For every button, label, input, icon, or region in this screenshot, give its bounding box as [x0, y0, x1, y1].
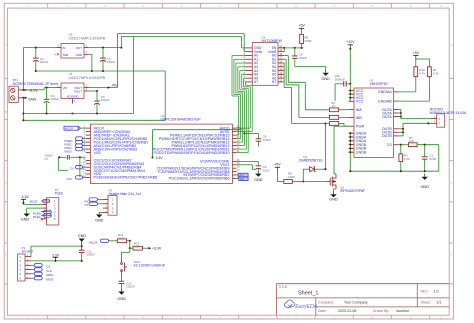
svg-text:33nF: 33nF	[429, 157, 436, 161]
resistor R6 100K	[284, 180, 293, 184]
capacitor C10 1000uF	[340, 83, 344, 85]
wire U4 A4 to U2	[240, 70, 246, 72]
gnd flag at P1	[24, 214, 30, 217]
svg-text:GND: GND	[254, 178, 263, 182]
svg-text:10uF: 10uF	[263, 169, 270, 173]
svg-text:LM1117MPX-5.0/NOPB: LM1117MPX-5.0/NOPB	[69, 76, 106, 80]
connector MOTOR1 WJ500V	[437, 114, 445, 127]
svg-text:Header-Male 2.54_1x4: Header-Male 2.54_1x4	[109, 192, 142, 196]
svg-text:KZ-11S0DP-G4SW-W: KZ-11S0DP-G4SW-W	[134, 264, 165, 268]
svg-text:MCLR: MCLR	[30, 200, 38, 204]
svg-text:100uF: 100uF	[51, 97, 60, 101]
svg-text:1K: 1K	[135, 244, 139, 248]
wire to SW1	[129, 248, 131, 252]
svg-text:LM1117AMP-3.3/NOPB: LM1117AMP-3.3/NOPB	[69, 36, 106, 40]
microcontroller U2 DSPIC33FJ64MC802	[90, 124, 232, 183]
wire OUTA to motor pin1	[401, 118, 431, 120]
level shifter U4 NVT2008PW	[252, 43, 278, 86]
svg-text:Date:: Date:	[318, 309, 326, 313]
wire C8 feed	[244, 133, 258, 135]
svg-text:B: B	[5, 110, 7, 114]
wire ENDIAB to R1	[399, 100, 430, 102]
wire rail A to U4 VrefA	[243, 34, 245, 52]
svg-text:PGEC: PGEC	[33, 215, 41, 219]
svg-text:GNDB: GNDB	[356, 151, 367, 155]
wire MCLR to pin1	[80, 127, 85, 129]
wire R11 to junction	[127, 240, 130, 242]
svg-text:GND: GND	[78, 234, 87, 238]
switch SW1	[121, 260, 127, 277]
connector P1 Pickit	[47, 198, 59, 225]
top rail A +5V	[117, 33, 244, 35]
svg-text:ENDIAB: ENDIAB	[378, 99, 392, 103]
resistor R2 1.5K	[400, 145, 402, 154]
svg-text:GND: GND	[321, 77, 330, 81]
svg-text:GND: GND	[21, 218, 30, 222]
wire BT1 plus to U5	[23, 89, 44, 91]
U3 left pins	[349, 90, 354, 92]
svg-text:ENDIAA: ENDIAA	[378, 90, 392, 94]
svg-text:+12V: +12V	[346, 40, 355, 44]
wire U4 A1 to U2	[234, 58, 246, 60]
wire U6 gnd pin	[89, 53, 92, 55]
svg-text:100nF: 100nF	[86, 253, 95, 257]
svg-text:100nF: 100nF	[263, 138, 272, 142]
wire Q1 source to gnd	[334, 188, 337, 190]
svg-text:12: 12	[439, 4, 443, 8]
wire gnd branch down	[133, 37, 135, 114]
svg-text:IRF9540STRPBF: IRF9540STRPBF	[340, 189, 365, 193]
wire U6 input	[23, 47, 61, 49]
wire B2 to R3c	[283, 62, 286, 64]
wire U4 A2 to U2	[236, 62, 246, 64]
wire U3 gnd pins chain	[349, 133, 351, 171]
svg-text:GND: GND	[28, 97, 37, 101]
svg-text:CS: CS	[387, 143, 393, 147]
svg-text:GND: GND	[76, 53, 82, 57]
wire U4 VrefB	[283, 51, 286, 53]
zener diode D1	[302, 169, 304, 181]
svg-text:GND: GND	[95, 219, 104, 223]
resistor R11 330	[117, 239, 126, 243]
wire 3.3V to P1 pin2	[23, 204, 41, 206]
net port MCLR at U2	[64, 126, 78, 130]
svg-text:2020-01-08: 2020-01-08	[338, 309, 356, 313]
gnd rail of U6	[36, 70, 165, 72]
wire B1 to R3b	[284, 58, 287, 60]
wire U6 output	[89, 47, 122, 49]
resistor R3c	[329, 122, 338, 126]
wire OUTB chain	[402, 123, 404, 136]
wire AVDD 3.3V crossing inside U2	[237, 127, 242, 129]
svg-text:PWR: PWR	[356, 125, 365, 129]
gnd rail G2	[23, 119, 165, 121]
wire C10 left lead down	[335, 83, 340, 85]
svg-text:GND: GND	[117, 297, 126, 301]
svg-text:C7: C7	[44, 157, 48, 161]
svg-text:SCREW TERMINAL 2P 5mm: SCREW TERMINAL 2P 5mm	[13, 82, 59, 86]
svg-text:3.3V: 3.3V	[22, 195, 30, 199]
svg-text:MISO: MISO	[46, 273, 54, 277]
wire PWR to Q1	[334, 125, 349, 127]
net port IO1 at U2 right	[237, 174, 239, 176]
svg-text:IO2: IO2	[240, 178, 245, 181]
wire left of C7	[57, 157, 59, 170]
U5 pin stubs	[57, 87, 62, 89]
wire VSS1 tee	[237, 164, 253, 166]
svg-text:4.7k: 4.7k	[419, 71, 425, 75]
wire CS	[399, 144, 409, 146]
svg-text:1.0: 1.0	[434, 290, 439, 294]
svg-text:10: 10	[371, 315, 375, 319]
wire 12V rail to VCC	[349, 50, 351, 101]
wire P1 pin1	[47, 200, 50, 202]
svg-text:Your Company: Your Company	[344, 300, 368, 304]
svg-text:Company:: Company:	[318, 300, 334, 304]
svg-text:WJ500V-5.08-2P-14-00A: WJ500V-5.08-2P-14-00A	[430, 111, 467, 115]
svg-text:330: 330	[119, 236, 124, 240]
gnd flag below Q1	[333, 191, 335, 194]
svg-text:1000uF: 1000uF	[334, 77, 345, 81]
svg-text:100uF: 100uF	[40, 60, 49, 64]
svg-text:PGED3/ASDA1/RP5/CN27/PMD7/RB5: PGED3/ASDA1/RP5/CN27/PMD7/RB5	[94, 176, 158, 180]
svg-text:1/1: 1/1	[437, 300, 442, 304]
resistor R4 200R	[300, 34, 304, 43]
U2 left pins	[86, 127, 91, 129]
svg-text:MOSI: MOSI	[46, 278, 53, 282]
wire gate rail	[303, 181, 326, 183]
capacitor C2	[35, 48, 37, 59]
gnd rail G1	[23, 113, 133, 115]
svg-text:A: A	[5, 43, 7, 47]
svg-text:100K: 100K	[288, 175, 295, 179]
wire U4 A3 to U2	[238, 66, 246, 68]
net port IO2 at U2 right	[237, 177, 239, 179]
wire VCAP to C9	[237, 160, 259, 162]
wire ENDIAA to R10	[399, 91, 416, 93]
wire U4 A5 to U2	[242, 73, 246, 75]
net label CS at P2	[34, 264, 42, 267]
svg-text:12: 12	[439, 315, 443, 319]
svg-text:1K: 1K	[332, 104, 336, 108]
gnd flag below C12	[121, 288, 123, 291]
svg-text:INA: INA	[356, 108, 363, 112]
gnd flag at P3	[96, 215, 102, 218]
svg-text:3.3V: 3.3V	[52, 253, 60, 257]
svg-text:A: A	[450, 43, 452, 47]
svg-text:CS: CS	[70, 167, 74, 171]
svg-text:ADJ/GND: ADJ/GND	[67, 94, 79, 98]
svg-text:MOSI: MOSI	[65, 149, 72, 153]
svg-text:+5V: +5V	[111, 84, 118, 88]
svg-text:A7: A7	[254, 80, 258, 84]
svg-text:VNH2SP30: VNH2SP30	[370, 82, 388, 86]
svg-text:+8.2V: +8.2V	[28, 88, 38, 92]
svg-text:VSS: VSS	[94, 151, 102, 155]
svg-text:+3.3V: +3.3V	[152, 247, 162, 251]
net label CLK at P2	[34, 268, 42, 271]
svg-text:100nF: 100nF	[299, 56, 308, 60]
wire R3b to INB	[339, 116, 349, 118]
wire P2 pin1 to gnd rail	[30, 246, 32, 257]
wire OUTA chain	[400, 110, 402, 119]
capacitor C3	[46, 88, 48, 100]
svg-text:IN: IN	[63, 46, 66, 50]
svg-text:Drawn By:: Drawn By:	[373, 309, 389, 313]
svg-text:MCLR: MCLR	[65, 126, 73, 130]
svg-text:VIN: VIN	[63, 86, 68, 90]
net flag +8.2V	[22, 89, 24, 91]
connector P2 encoder	[18, 254, 25, 281]
wire R7 right	[417, 144, 439, 146]
capacitor C9 10uF	[256, 165, 262, 167]
svg-text:200R: 200R	[304, 39, 312, 43]
top rail B 3.3V	[121, 36, 241, 38]
U6 pin stubs	[57, 47, 62, 49]
wire down to CLK	[79, 157, 81, 177]
resistor R12 1K	[133, 246, 142, 250]
svg-text:OUTB: OUTB	[382, 134, 393, 138]
net label MOSI at P2	[34, 277, 42, 280]
resistor R10 4.7k	[414, 67, 418, 77]
capacitor C4	[102, 48, 104, 59]
connector P3 header male 1x4	[108, 195, 117, 215]
svg-text:10K: 10K	[409, 139, 414, 143]
resistor R3a	[329, 108, 338, 112]
net label MISO at P2	[34, 272, 42, 275]
svg-text:1SMB5929BT3G: 1SMB5929BT3G	[299, 159, 324, 163]
wire gnd down at right	[164, 71, 166, 120]
U2 right pins	[233, 127, 237, 129]
wire U5 vout2	[89, 90, 98, 92]
svg-text:Sheet:: Sheet:	[421, 300, 431, 304]
BT1 pin stubs	[18, 89, 23, 91]
svg-text:10: 10	[371, 4, 375, 8]
svg-text:GND: GND	[329, 198, 338, 202]
U3 right pins	[394, 91, 399, 93]
svg-text:NVT2008PW: NVT2008PW	[262, 39, 283, 43]
svg-text:PGD2/TDI/PWM1H3/RP10/CN16/PMD2: PGD2/TDI/PWM1H3/RP10/CN16/PMD2/RB10	[153, 151, 229, 155]
gnd flag bottom right	[424, 174, 426, 177]
wire junction down to R12 row	[129, 241, 131, 248]
EasyEDA logo	[285, 300, 295, 307]
wire P3 pin4 gnd	[99, 211, 103, 213]
battery connector BT1 screw terminal	[9, 86, 18, 102]
wire U4 EN	[284, 47, 304, 49]
wire R6 to +5V	[277, 181, 283, 183]
resistor R7 10K	[408, 143, 417, 147]
wire R3a to INA	[339, 109, 349, 111]
gnd rail bottom right	[350, 170, 439, 172]
svg-text:100uF: 100uF	[107, 60, 116, 64]
svg-text:B7: B7	[272, 80, 276, 84]
wire OUTB to motor pin2	[403, 122, 431, 124]
gnd flag below C9	[257, 170, 259, 173]
svg-text:11: 11	[409, 4, 412, 8]
title block	[277, 284, 450, 316]
svg-text:100nF: 100nF	[126, 285, 135, 289]
svg-text:Sheet_1: Sheet_1	[298, 290, 319, 296]
capacitor C11 100nF	[81, 245, 83, 247]
wire B0 to R3a	[284, 55, 289, 57]
gnd flag right of C6	[325, 70, 327, 73]
capacitor C8	[258, 134, 260, 139]
transistor Q1 PMOS	[327, 174, 337, 189]
net flag +5V at U5	[108, 86, 111, 88]
capacitor C6	[294, 48, 296, 56]
wire zener column	[324, 124, 326, 170]
capacitor C1 33nF	[424, 145, 426, 157]
svg-text:CLK: CLK	[67, 177, 73, 181]
svg-text:1.5K: 1.5K	[404, 157, 410, 161]
voltage regulator U5 LM1117MPX-5.0	[61, 83, 84, 99]
svg-text:100uF: 100uF	[101, 98, 110, 102]
svg-text:+5V: +5V	[298, 24, 305, 28]
wire +5V out	[89, 87, 118, 89]
svg-text:4.7k: 4.7k	[433, 71, 439, 75]
svg-text:Pickit: Pickit	[55, 192, 63, 196]
capacitor C12 100nF	[121, 276, 123, 281]
wire R10 R1 tops to +5V	[415, 59, 417, 67]
svg-text:VCC: VCC	[356, 100, 364, 104]
svg-text:TX: TX	[85, 203, 89, 207]
svg-text:REV:: REV:	[421, 290, 429, 294]
svg-text:OUT: OUT	[76, 46, 82, 50]
wire U5 input	[46, 87, 48, 89]
wire U4 A6 to AVDD	[244, 77, 246, 79]
wire C6 to gnd	[295, 65, 326, 67]
capacitor C7 inline	[67, 155, 69, 160]
wire U4 A7 to AVSS	[245, 82, 247, 85]
svg-text:PGC3/ASCL1/RP6/CN24/PMD6/RB6: PGC3/ASCL1/RP6/CN24/PMD6/RB6	[169, 177, 230, 181]
svg-text:INB: INB	[356, 116, 363, 120]
wire U5 adj to gnd rail	[71, 112, 73, 114]
nc mark P1 pin6	[41, 218, 43, 220]
resistor R3b	[329, 116, 338, 120]
svg-text:+5V: +5V	[274, 163, 281, 167]
net flag GND at BT1	[22, 97, 24, 99]
voltage regulator U6 LM1117AMP-3.3	[61, 44, 84, 59]
svg-text:VOUT: VOUT	[74, 89, 82, 93]
svg-text:MCLR: MCLR	[89, 241, 97, 245]
wire R12 to 3.3V flag	[142, 247, 148, 249]
svg-text:3.3V: 3.3V	[156, 156, 164, 160]
svg-text:TAB: TAB	[63, 53, 68, 57]
svg-text:+5V: +5V	[413, 51, 420, 55]
capacitor C5	[96, 91, 98, 101]
svg-text:EasyEDA: EasyEDA	[295, 304, 318, 310]
motor driver U3 VNH2SP30	[354, 88, 394, 158]
wire U4 A0 to U2	[232, 55, 246, 57]
svg-text:DSPIC33FJ64MC802-I/SP: DSPIC33FJ64MC802-I/SP	[161, 118, 202, 122]
resistor R1 4.7k	[428, 67, 432, 77]
wire P2 pin2 3.3V rail	[31, 260, 82, 262]
wire P1 pin3 gnd	[27, 207, 42, 209]
svg-text:TITLE:: TITLE:	[278, 285, 288, 289]
wire Q1 drain	[334, 173, 336, 175]
svg-text:encoder: encoder	[22, 249, 34, 253]
svg-text:koonton: koonton	[397, 309, 410, 313]
wire R3c to PWR	[339, 123, 344, 125]
svg-text:OUTA: OUTA	[382, 115, 392, 119]
power flag 3.3V inside U2	[151, 156, 153, 158]
wire rail B to U4 GND pin	[241, 37, 243, 48]
svg-text:11: 11	[409, 315, 412, 319]
wire BT1 minus	[22, 98, 24, 121]
wire VSS row	[58, 156, 66, 158]
svg-text:GND: GND	[420, 185, 429, 189]
